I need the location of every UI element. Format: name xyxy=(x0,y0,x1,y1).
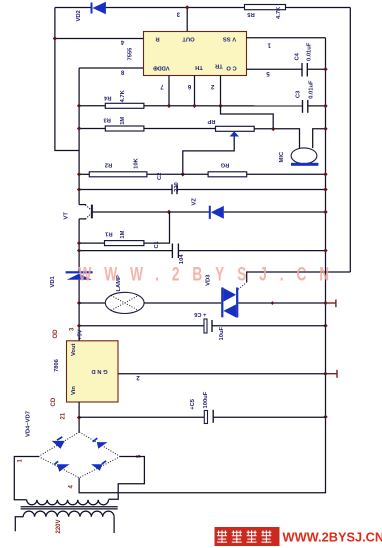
svg-text:C O: C O xyxy=(226,65,237,71)
svg-text:4.7K: 4.7K xyxy=(276,6,282,19)
wire: rail3 left of C2 xyxy=(79,189,172,191)
resistor R5 xyxy=(245,5,286,10)
svg-text:R5: R5 xyxy=(247,11,255,17)
wire: V2 from transistor emitter down to VD1 xyxy=(78,219,80,272)
junction busA/rail1 xyxy=(323,104,327,108)
junction railR3/V2 xyxy=(77,126,81,130)
svg-text:WWW.2BYSJ.CN: WWW.2BYSJ.CN xyxy=(283,530,382,545)
resistor R4 xyxy=(105,103,144,108)
svg-text:4: 4 xyxy=(120,39,124,46)
junction rail1/pin7 xyxy=(167,104,171,108)
svg-text:4: 4 xyxy=(69,485,75,489)
wire: R3 to RP xyxy=(144,128,216,130)
wire: C6 to bus A xyxy=(212,325,326,327)
wire: bridge left vertex to transformer secondary left xyxy=(14,457,38,500)
svg-text:VD3: VD3 xyxy=(206,274,212,286)
wire: IC1 pin5 wire to C4 xyxy=(247,68,303,70)
svg-text:R4: R4 xyxy=(103,94,111,100)
wire: rail1 left segment to R4 xyxy=(79,105,105,107)
junction C5wire/V2 xyxy=(77,415,81,419)
svg-text:1: 1 xyxy=(267,41,271,48)
svg-text:VT: VT xyxy=(64,212,70,220)
svg-text:1M: 1M xyxy=(120,117,126,125)
wire: lamp to triac xyxy=(144,302,221,304)
bridge diode top-left xyxy=(52,437,65,449)
junction busA/C1wire xyxy=(323,248,327,252)
junction R1wire/V2 xyxy=(77,241,81,245)
bridge diode bottom-right xyxy=(91,461,106,471)
capacitor C5 (electrolytic) xyxy=(204,410,213,424)
bridge diode top-right xyxy=(93,438,108,449)
svg-text:3: 3 xyxy=(70,327,76,331)
junction busA/lampwire xyxy=(323,301,327,305)
svg-text:Vout: Vout xyxy=(71,343,77,356)
banner text byj xyxy=(217,530,227,543)
wire: IC1 pin4 wire to V1 xyxy=(55,38,144,40)
capacitor C4 xyxy=(302,63,307,77)
wire: C1 wire left xyxy=(79,250,172,252)
voltage regulator U2 7806 body xyxy=(67,341,119,402)
wire: VZ to bus A xyxy=(224,211,326,213)
svg-text:2: 2 xyxy=(210,83,214,90)
junction busA/rail2 xyxy=(323,172,327,176)
svg-text:7: 7 xyxy=(160,83,164,90)
svg-text:MIC: MIC xyxy=(279,151,285,162)
bus B vertical from top rail xyxy=(349,8,351,273)
svg-text:5: 5 xyxy=(266,70,270,77)
svg-text:V SS: V SS xyxy=(223,35,236,41)
resistor R1 xyxy=(105,241,144,246)
svg-text:C2: C2 xyxy=(157,173,163,180)
wire: C5 wire left xyxy=(79,416,204,418)
wire: base wire from VT to VZ xyxy=(92,211,209,213)
wiper arrow of RP xyxy=(230,131,240,136)
svg-text:0.01uF: 0.01uF xyxy=(309,80,315,99)
wire: IC1 pin2 stub xyxy=(220,76,222,106)
svg-text:VZ: VZ xyxy=(192,198,198,206)
junction V1/pin4 xyxy=(53,36,57,40)
svg-text:21: 21 xyxy=(61,412,67,419)
svg-text:RP: RP xyxy=(207,118,215,124)
svg-text:+ C6: + C6 xyxy=(193,311,206,317)
wire: C1 to bus A xyxy=(178,250,325,252)
junction pin2jog/RPwire xyxy=(271,127,275,131)
wire: V2 regulator bottom to bridge top xyxy=(78,402,80,432)
wire: R1 right up to base wire xyxy=(144,212,170,243)
svg-text:4.7K: 4.7K xyxy=(120,89,126,102)
resistor R2 xyxy=(89,172,147,177)
svg-text:TR: TR xyxy=(214,62,223,68)
resistor RG xyxy=(208,172,247,177)
wire: top rail from left corner to VD2 xyxy=(55,7,92,9)
junction top rail / pin3 xyxy=(185,5,189,9)
diode VZ xyxy=(209,206,224,219)
bridge rectifier VD4~VD7 edges xyxy=(39,432,121,478)
junction busA/basewire xyxy=(323,210,327,214)
wire: IC1 pin3 stub to top rail xyxy=(186,8,188,32)
wire: rail2 left segment xyxy=(79,173,89,175)
svg-text:10uF: 10uF xyxy=(219,327,225,341)
svg-text:220: 220 xyxy=(174,182,180,192)
wire: C5 to bus A xyxy=(213,416,325,418)
wire: regulator GND pin to bus A xyxy=(118,373,326,375)
wire: C4 to bus A xyxy=(307,68,325,70)
wire: mic right up and to bus A xyxy=(313,129,326,148)
capacitor C3 xyxy=(303,100,308,113)
transformer T1 primary winding xyxy=(23,511,114,517)
resistor R3 xyxy=(105,126,144,131)
diode VD1 xyxy=(66,271,93,280)
transistor Q1 VT xyxy=(79,205,93,220)
potentiometer RP body xyxy=(216,126,255,131)
junction busA/micwire xyxy=(323,127,327,131)
connector stub at gnd wire xyxy=(326,370,338,378)
svg-text:VD4~VD7: VD4~VD7 xyxy=(26,411,32,437)
wire: primary right terminal xyxy=(113,517,115,533)
svg-text:3: 3 xyxy=(176,11,180,18)
wire: lamp wire left xyxy=(79,302,105,304)
wire: rail3 from C2 to bus A xyxy=(177,189,326,191)
svg-text:7806: 7806 xyxy=(54,358,60,372)
svg-text:C1: C1 xyxy=(154,240,160,248)
svg-text:7555: 7555 xyxy=(128,47,134,61)
wire: RP right to mic left corner xyxy=(254,129,299,148)
junction wiper/rail2 xyxy=(181,172,185,176)
svg-text:VD1: VD1 xyxy=(50,275,56,287)
svg-text:G N D: G N D xyxy=(91,368,107,374)
junction busA/rail3 xyxy=(323,187,327,191)
transformer T1 secondary winding xyxy=(27,500,109,505)
svg-text:104: 104 xyxy=(179,254,185,264)
wire: pin2 jog down from rail1 xyxy=(221,106,274,129)
svg-text:OUT: OUT xyxy=(182,35,195,41)
svg-text:+5V: +5V xyxy=(78,329,84,340)
wire: triac gate diagonal xyxy=(238,282,246,289)
capacitor C6 (electrolytic) xyxy=(204,319,212,333)
junction lampwire/V2 xyxy=(77,301,81,305)
wire: primary left terminal xyxy=(15,517,23,531)
junction busA/C5wire xyxy=(323,415,327,419)
junction C6wire/V2 xyxy=(77,324,81,328)
svg-text:CD: CD xyxy=(51,397,57,406)
wire: top rail from VD2 to bus B corner xyxy=(106,7,350,9)
svg-text:WWW.2BYSJ.CN: WWW.2BYSJ.CN xyxy=(79,263,330,285)
junction busA/C6wire xyxy=(323,324,327,328)
bridge diode bottom-left xyxy=(54,461,69,472)
svg-text:R1: R1 xyxy=(104,231,112,237)
svg-text:100uF: 100uF xyxy=(203,391,209,408)
connector stub at lamp wire xyxy=(326,300,336,308)
wire: rail R3 left segment xyxy=(79,128,105,130)
svg-text:RG: RG xyxy=(220,162,229,168)
svg-text:VDD: VDD xyxy=(157,64,169,70)
microphone MIC bar xyxy=(291,163,318,166)
banner red box xyxy=(215,527,280,546)
svg-text:6: 6 xyxy=(187,83,191,90)
svg-text:R2: R2 xyxy=(105,161,112,167)
junction rail1/pin2 xyxy=(218,104,222,108)
svg-text:8: 8 xyxy=(120,69,124,76)
capacitor C1 xyxy=(172,244,178,259)
svg-text:10K: 10K xyxy=(134,157,140,168)
wire: RG to bus A xyxy=(247,173,326,175)
wire: R2 to RG xyxy=(147,173,208,175)
wire: IC1 pin8 wire to V2 top xyxy=(79,67,143,69)
wire: bridge right vertex staircase to secondary right xyxy=(109,457,145,500)
wire: triac right to bus A xyxy=(238,302,325,304)
microphone MIC body xyxy=(291,148,317,164)
wire: IC1 pin1 wire to bus A xyxy=(247,37,326,39)
wire: rail1 from C3 to bus A xyxy=(308,105,326,107)
junction rail1/V2 xyxy=(77,104,81,108)
svg-text:2: 2 xyxy=(136,374,140,381)
svg-text:0.01uF: 0.01uF xyxy=(307,42,313,61)
junction small on lamp wire xyxy=(271,301,275,305)
op-amp U1: 7555 timer IC body xyxy=(144,32,247,76)
svg-text:R3: R3 xyxy=(103,117,111,123)
svg-text:VD2: VD2 xyxy=(76,10,82,21)
wire: gate riser to bus B corner xyxy=(247,272,351,282)
svg-text:220V: 220V xyxy=(56,519,62,533)
wire: rail1 from R4 to C3 xyxy=(144,105,303,107)
wire: R1 wire left xyxy=(79,242,104,244)
wire: IC1 pin7 stub xyxy=(168,76,170,106)
junction rail2/V2 xyxy=(77,172,81,176)
capacitor C2 xyxy=(172,184,177,194)
wire: IC1 pin6 stub xyxy=(194,76,196,106)
svg-text:OD: OD xyxy=(53,329,59,339)
svg-text:+C5: +C5 xyxy=(190,398,196,410)
svg-text:C4: C4 xyxy=(295,52,301,60)
wire: V2 main vertical upper part (pin8 corner to transistor) xyxy=(78,68,80,205)
wire: RP wiper to rail2 xyxy=(183,136,234,174)
svg-text:Vin: Vin xyxy=(71,386,77,395)
svg-text:TH: TH xyxy=(195,64,203,70)
wire: V2 from VD1 to regulator xyxy=(78,280,80,341)
lamp LAMP body xyxy=(105,292,144,313)
junction busA/gndwire xyxy=(323,372,327,376)
junction rail1/pin6 xyxy=(192,104,196,108)
junction busA/pin5 xyxy=(323,67,327,71)
svg-text:C3: C3 xyxy=(296,90,302,98)
junction C1wire/V2 xyxy=(77,248,81,252)
junction rail3/V2 xyxy=(77,187,81,191)
junction basewire/C1 branch xyxy=(167,210,171,214)
lamp cross xyxy=(111,295,138,310)
diode VD2 xyxy=(91,2,106,14)
wire: C6 wire left xyxy=(79,325,204,327)
triac VD3 xyxy=(221,287,238,317)
svg-text:1M: 1M xyxy=(120,230,126,238)
wire: left drop V1 xyxy=(55,8,79,151)
transformer core lines xyxy=(21,507,118,509)
bus A vertical xyxy=(79,38,325,493)
svg-text:1: 1 xyxy=(18,459,24,463)
